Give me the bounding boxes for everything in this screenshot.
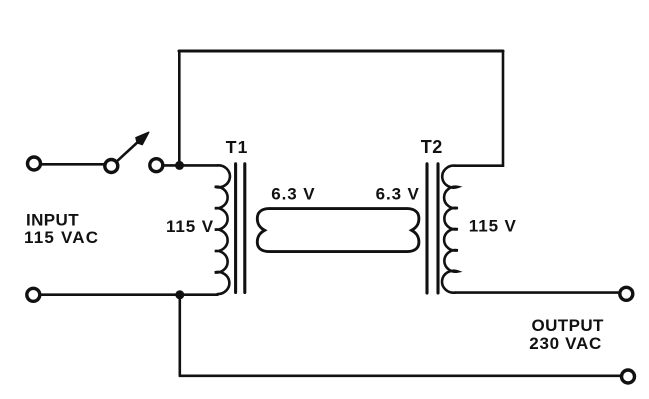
T2 core bar right [436,164,439,293]
wire: bottom vertical [179,295,182,376]
junction dot: bottom (T1/input/bottom rail) [175,290,184,299]
wire: switch output to T1 primary top [164,164,218,167]
svg-text:6.3 V: 6.3 V [376,185,420,204]
wire: top rail [179,49,503,52]
svg-text:6.3 V: 6.3 V [271,185,315,204]
wire: output top lead [455,291,618,294]
switch arm [117,140,141,162]
transformer T2 secondary winding (6.3 V, 2 arcs bulging right) [407,209,419,252]
wire: right vertical from top rail down to T2 primary [455,51,503,166]
transformer T1 primary winding (115 V, 6 arcs bulging right) [215,165,230,294]
transformer T2 primary winding (115 V, 6 arcs bulging left) [442,166,458,293]
wire: left vertical from top rail to switch junction [178,51,181,163]
T2 core bar left [425,164,428,293]
wire: 6.3V link top [270,207,406,210]
terminal: output bottom [622,370,635,383]
wire: bottom rail [180,374,621,377]
svg-text:T2: T2 [421,137,443,157]
svg-text:115 VAC: 115 VAC [24,228,99,247]
junction dot: top (switch/T1/top rail) [175,161,184,170]
transformer T1 secondary winding (6.3 V, 2 arcs bulging left) [257,209,269,252]
switch pivot terminal [105,160,118,173]
wire: 6.3V link bottom [270,250,406,253]
svg-text:230 VAC: 230 VAC [529,334,602,353]
terminal: output top [620,287,633,300]
terminal: input bottom-left [27,288,40,301]
svg-text:OUTPUT: OUTPUT [532,316,605,335]
wire: input top lead [42,163,105,166]
T1 core bar left [234,164,237,293]
svg-text:INPUT: INPUT [26,210,79,229]
svg-text:T1: T1 [226,137,249,157]
wire: input bottom lead [41,293,218,296]
T1 core bar right [243,164,246,293]
switch output terminal [150,159,163,172]
svg-text:115 V: 115 V [469,217,517,236]
terminal: input top-left [28,157,41,170]
switch arrowhead [136,132,149,144]
svg-text:115 V: 115 V [166,217,214,236]
